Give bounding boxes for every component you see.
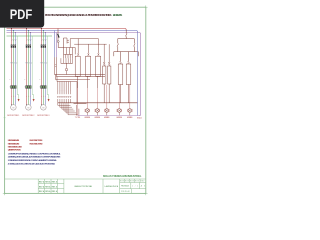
collector teeth bbox=[61, 58, 73, 63]
control blue drop bbox=[54, 31, 56, 58]
right tree mid rail bbox=[114, 52, 139, 62]
titleblock left grid horizontals bbox=[38, 184, 64, 189]
svg-text:REV: REV bbox=[135, 181, 139, 183]
page background bbox=[0, 0, 149, 198]
coil KM2 bbox=[108, 66, 111, 84]
wire branch1 run L1 bbox=[11, 48, 13, 86]
contact comb row bbox=[64, 54, 73, 58]
lamp feed wires bbox=[78, 76, 98, 88]
motor M3 bbox=[41, 105, 47, 111]
rail emphasis bbox=[74, 103, 87, 105]
svg-text:PRACTICA N8 ARRANQUE SECUENCIA: PRACTICA N8 ARRANQUE SECUENCIAL AUTOMATI… bbox=[45, 13, 112, 17]
junction dots branch2 bbox=[26, 28, 27, 29]
distribution bus C bbox=[56, 75, 91, 80]
wire branch2 L1 tap bbox=[26, 29, 28, 45]
motor M2 bbox=[26, 105, 32, 111]
collector bar bbox=[61, 62, 73, 64]
feeder vertical bbox=[63, 38, 65, 54]
relay coil K1 bbox=[66, 63, 68, 74]
ground arrow branch2 bbox=[33, 99, 35, 102]
border corner ticks bbox=[3, 5, 148, 195]
svg-text:1 / 1: 1 / 1 bbox=[132, 185, 138, 187]
lamp H1 bbox=[85, 109, 89, 113]
wire branch3 L1 tap bbox=[41, 29, 43, 45]
junction dots branch3 bbox=[41, 28, 42, 29]
wire branch1 L2 tap bbox=[12, 31, 14, 45]
wire branch2 motor leads bbox=[26, 89, 28, 105]
timer module KT1 bbox=[75, 56, 80, 76]
svg-text:M2: BOMBA AGUA N2: M2: BOMBA AGUA N2 bbox=[8, 142, 20, 145]
distribution bus A bbox=[55, 74, 106, 76]
svg-text:1. INTERRUPTOR GENERAL TRIFASI: 1. INTERRUPTOR GENERAL TRIFASICO CON PRO… bbox=[8, 152, 61, 155]
wire branch3 L3 tap bbox=[44, 33, 46, 45]
motor M1 bbox=[11, 105, 17, 111]
svg-text:3. PARADA DE EMERGENCIA CON EN: 3. PARADA DE EMERGENCIA CON ENCLAVAMIENT… bbox=[8, 159, 58, 162]
red drop to right tree bbox=[125, 30, 127, 39]
svg-text:REV: REV bbox=[120, 181, 124, 183]
comb contact dots bbox=[57, 96, 71, 97]
svg-text:REV: REV bbox=[125, 181, 129, 183]
right tree top tee bbox=[118, 39, 135, 44]
ground arrow branch1 bbox=[18, 99, 20, 102]
svg-text:2. ARRANQUE SECUENCIAL AUTOMAT: 2. ARRANQUE SECUENCIAL AUTOMATIZADO CON … bbox=[8, 156, 61, 159]
comb terminal labels bbox=[58, 90, 71, 92]
svg-text:H2 VERDE: H2 VERDE bbox=[95, 117, 101, 119]
wire branch1 motor leads bbox=[11, 89, 13, 105]
bus L2 (blue) bbox=[7, 31, 138, 32]
lamp H3 bbox=[105, 109, 109, 113]
distribution bus D bbox=[57, 77, 77, 103]
svg-text:M: M bbox=[12, 108, 14, 110]
svg-text:M3: BOMBA DE AGUA N3: M3: BOMBA DE AGUA N3 bbox=[8, 146, 23, 149]
overload relay F3 bbox=[38, 86, 41, 88]
wire branch3 run L1 bbox=[41, 48, 43, 86]
overload relay F2 bbox=[23, 86, 26, 88]
svg-text:THW 3x12: THW 3x12 bbox=[10, 63, 18, 65]
wire fuse to feeder bbox=[58, 43, 63, 48]
motor terminal marks branch2 bbox=[26, 95, 31, 97]
control rail upper 2 bbox=[74, 44, 106, 53]
timer x-contacts bbox=[77, 53, 99, 55]
wire branch3 motor leads bbox=[41, 89, 43, 105]
svg-text:THW 3x12: THW 3x12 bbox=[40, 63, 48, 65]
coil KM1 bbox=[103, 66, 106, 84]
wire branch2 run L1 bbox=[26, 48, 28, 86]
wire branch2 run L3 bbox=[29, 48, 31, 86]
wire branch2 run L2 bbox=[27, 48, 29, 86]
breaker Q2 pin ticks bbox=[27, 39, 32, 41]
svg-text:4. SENALIZACION LUMINOSA DE CA: 4. SENALIZACION LUMINOSA DE CADA ELECTRO… bbox=[8, 162, 56, 165]
neutral return rail bbox=[78, 115, 141, 117]
svg-text:H5 VERDE: H5 VERDE bbox=[127, 117, 133, 119]
comb verticals to bottom rail bbox=[58, 82, 71, 103]
wire branch1 L3 tap bbox=[14, 33, 16, 45]
neutral drop purple bbox=[140, 34, 141, 116]
breaker Q3 poles bbox=[41, 45, 42, 48]
feeder top stub bbox=[64, 38, 70, 44]
breaker Q1 pin ticks bbox=[12, 39, 17, 41]
breaker Q2 poles bbox=[26, 45, 27, 48]
svg-text:H1 VERDE: H1 VERDE bbox=[85, 117, 91, 119]
titleblock left grid verticals bbox=[38, 179, 64, 193]
wire branch1 PE bbox=[17, 36, 18, 99]
control rail upper 1 bbox=[70, 39, 98, 54]
svg-text:REV: REV bbox=[130, 181, 134, 183]
wire branch1 run L2 bbox=[12, 48, 14, 86]
svg-text:KM1: CONTACTOR M1: KM1: CONTACTOR M1 bbox=[30, 139, 44, 142]
timer module KT3 bbox=[96, 56, 101, 76]
coil KM3 bbox=[118, 64, 123, 85]
motor terminal marks branch1 bbox=[11, 95, 16, 97]
wire branch1 L1 tap bbox=[11, 29, 13, 45]
page border frame bbox=[5, 7, 146, 193]
coil bottoms to rail bbox=[104, 84, 128, 103]
disconnect switch S0 bbox=[58, 34, 60, 38]
svg-text:KM2: CONTACTOR M2: KM2: CONTACTOR M2 bbox=[30, 142, 44, 145]
junction dots branch1 bbox=[11, 28, 12, 29]
svg-text:MOTOR TRIF. 2: MOTOR TRIF. 2 bbox=[22, 115, 34, 117]
svg-text:H4 VERDE: H4 VERDE bbox=[117, 117, 123, 119]
control purple drop bbox=[56, 33, 58, 58]
wire branch3 run L2 bbox=[42, 48, 44, 86]
wire branch2 L2 tap bbox=[27, 31, 29, 45]
svg-text:THW 3x12: THW 3x12 bbox=[25, 63, 33, 65]
svg-text:LAB ELECTROTECNIA: LAB ELECTROTECNIA bbox=[74, 185, 92, 188]
wire branch3 L2 tap bbox=[42, 31, 44, 45]
svg-text:REV: REV bbox=[141, 181, 145, 183]
distribution bus B bbox=[57, 76, 106, 78]
timer module KT2 bbox=[86, 56, 91, 76]
aux x-contacts S1 S2 bbox=[103, 44, 105, 66]
bus PE (green) bbox=[7, 35, 53, 37]
neutral drop blue bbox=[137, 32, 139, 116]
svg-text:M: M bbox=[42, 108, 44, 110]
PDF badge bbox=[0, 0, 44, 28]
right tree contacts bbox=[117, 44, 135, 52]
bus L1 (red) bbox=[7, 29, 127, 31]
svg-text:T1 CTRL: T1 CTRL bbox=[75, 117, 81, 119]
wire branch2 PE bbox=[32, 36, 33, 99]
svg-text:MOTOR TRIF. 3: MOTOR TRIF. 3 bbox=[37, 115, 49, 117]
svg-text:COD PL-08: COD PL-08 bbox=[121, 191, 130, 193]
wire branch3 PE bbox=[47, 36, 48, 99]
motor terminal marks branch3 bbox=[41, 95, 46, 97]
svg-text:Q1: INTERRUPTOR GEN: Q1: INTERRUPTOR GEN bbox=[8, 150, 21, 152]
titleblock top line bbox=[5, 178, 146, 180]
staircase drop to lamp bus bbox=[76, 105, 79, 116]
coil KM4 bbox=[126, 64, 131, 85]
svg-text:MOLAS Y REDES ADM INDUSTRIAL: MOLAS Y REDES ADM INDUSTRIAL bbox=[103, 174, 142, 178]
bottom control rail bbox=[58, 102, 138, 104]
border fold mark bbox=[4, 117, 6, 119]
svg-text:M: M bbox=[27, 108, 29, 110]
feeder distribution bbox=[64, 48, 76, 55]
svg-text:BOMBAS: BOMBAS bbox=[113, 13, 123, 17]
ground arrow branch3 bbox=[48, 99, 50, 102]
fuse body bbox=[57, 41, 59, 43]
coil KM3 KM4 top ticks bbox=[120, 62, 130, 64]
fuse F0 tap from L1 bbox=[57, 29, 59, 41]
svg-text:H3 VERDE: H3 VERDE bbox=[104, 117, 110, 119]
svg-text:M1: BOMBA AGUA N1: M1: BOMBA AGUA N1 bbox=[8, 139, 20, 142]
wire branch2 L3 tap bbox=[29, 33, 31, 45]
svg-text:PDF: PDF bbox=[10, 7, 33, 22]
breaker Q1 poles bbox=[11, 45, 12, 48]
wire branch1 run L3 bbox=[14, 48, 16, 86]
lamp feeds right bbox=[107, 85, 130, 109]
lamp H4 bbox=[117, 109, 121, 113]
wire staircase below rail bbox=[58, 103, 78, 115]
lamp H5 bbox=[128, 109, 132, 113]
svg-text:LAMINA UNICA: LAMINA UNICA bbox=[105, 185, 119, 188]
titleblock right grid bbox=[120, 179, 146, 193]
overload relay F1 bbox=[8, 86, 11, 88]
lamp H2 bbox=[95, 109, 99, 113]
svg-text:MOTOR TRIF. 1: MOTOR TRIF. 1 bbox=[7, 115, 19, 117]
breaker Q3 pin ticks bbox=[42, 39, 47, 41]
terminal marks left bbox=[55, 65, 56, 67]
titleblock center cells bbox=[103, 179, 120, 193]
wire branch3 run L3 bbox=[44, 48, 46, 86]
bus L3 (purple) bbox=[7, 33, 141, 34]
